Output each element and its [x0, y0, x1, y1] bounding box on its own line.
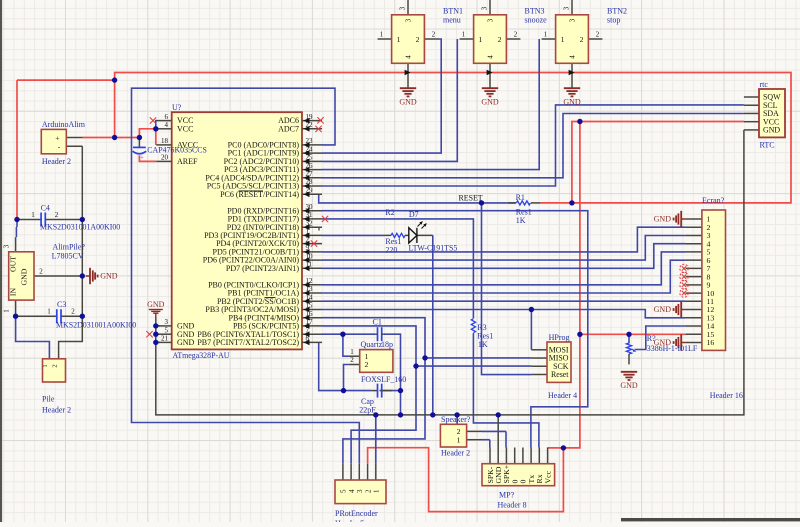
svg-text:1: 1 [380, 31, 384, 39]
svg-text:Ecran?: Ecran? [702, 196, 725, 205]
svg-text:19: 19 [306, 113, 314, 121]
svg-text:-: - [58, 142, 61, 151]
pin 11 PD7 [302, 267, 322, 269]
ground below BTN3 [482, 87, 498, 89]
pin 26 PC3 [302, 169, 322, 171]
svg-text:Header 8: Header 8 [498, 501, 527, 510]
svg-text:GND: GND [620, 381, 638, 390]
resistor R1 1K [516, 201, 530, 205]
wire RTC SCL to PC5 [322, 105, 744, 186]
component Quartz FOXSLF_160 [349, 355, 360, 357]
node XTAL2 quartz tap [341, 388, 346, 393]
GND bus dark [156, 130, 744, 415]
svg-text:1: 1 [462, 31, 466, 39]
svg-text:3: 3 [487, 18, 495, 22]
component BTN2 stop pushbutton [571, 0, 573, 15]
svg-text:17: 17 [306, 318, 314, 326]
node MP Vcc junction [561, 445, 566, 450]
svg-text:18p: 18p [381, 340, 393, 349]
svg-text:8: 8 [306, 335, 310, 343]
wire PB1 to Ecran pin6 [322, 260, 686, 293]
pin 13 PB1 [302, 292, 322, 294]
component AlimPile? L7805CV regulator [15, 237, 17, 252]
wire short stub below bus [456, 415, 458, 424]
svg-text:2: 2 [306, 236, 310, 244]
svg-text:1: 1 [479, 35, 483, 44]
component HProg Header 4 [531, 349, 547, 351]
node GND chain dots [153, 323, 158, 328]
wire red cap to AREF [139, 155, 156, 161]
svg-text:U?: U? [172, 103, 182, 112]
svg-text:20: 20 [161, 154, 169, 162]
svg-text:GND: GND [563, 97, 581, 106]
wire pot wiper to Ecran pin14 [635, 326, 686, 350]
svg-text:9: 9 [306, 244, 310, 252]
svg-text:L7805CV: L7805CV [52, 252, 84, 261]
wire Pile dark branch [59, 316, 83, 359]
svg-text:12: 12 [306, 277, 314, 285]
svg-text:Header 2: Header 2 [42, 157, 71, 166]
wire PB7 XTAL2 net with Cap 22pF [319, 342, 371, 390]
svg-text:1: 1 [457, 436, 461, 445]
ground Ecran pin16 [681, 342, 685, 344]
svg-text:3: 3 [563, 6, 571, 10]
wire VCC top bus red [17, 79, 115, 81]
node ArduinoAlim plus junction [112, 135, 117, 140]
capacitor GAP476K035CCS [138, 138, 140, 148]
svg-text:3: 3 [405, 18, 413, 22]
node pot top junction [626, 332, 631, 337]
wire BTN3 to PC2 [322, 39, 457, 161]
svg-text:21: 21 [161, 335, 169, 343]
svg-text:1: 1 [561, 35, 565, 44]
no-erc cross VCC pin6 [150, 117, 156, 123]
pin 15 PB3 [302, 309, 322, 311]
svg-text:4: 4 [165, 121, 169, 129]
pin 24 PC1 [302, 152, 322, 154]
ground Ecran pin1 [681, 218, 685, 220]
no-erc cross GND pin5 [146, 331, 152, 337]
node gnd bus tap [454, 412, 459, 417]
svg-text:2: 2 [364, 489, 372, 493]
svg-text:GND: GND [399, 97, 417, 106]
svg-text:Vcc: Vcc [543, 470, 552, 483]
wire Pile blue branch [16, 316, 50, 359]
svg-text:1: 1 [544, 31, 548, 39]
svg-text:2: 2 [596, 31, 600, 39]
svg-text:31: 31 [306, 211, 314, 219]
resistor R3 1K [471, 319, 475, 333]
wire PB0 to Ecran pin5 [322, 252, 686, 285]
svg-text:GND: GND [654, 215, 672, 224]
wire SCK net PB5 to HProg and PRotEncoder pin2 [322, 326, 416, 464]
wire C4 to regulator pin3 [16, 220, 18, 228]
svg-text:4: 4 [348, 489, 356, 493]
pin 28 PC5 [302, 185, 322, 187]
pin 18 AVCC [156, 144, 171, 146]
svg-text:GND: GND [177, 338, 195, 347]
svg-text:22: 22 [306, 121, 314, 129]
no-erc circle Ecran pin10 [680, 289, 688, 297]
svg-text:2: 2 [432, 31, 436, 39]
svg-text:GND: GND [20, 268, 29, 285]
pin 1 PD3 [302, 234, 322, 236]
svg-text:+: + [140, 155, 144, 162]
node regulator GND junction [80, 273, 85, 278]
svg-text:24: 24 [306, 145, 314, 153]
svg-text:29: 29 [306, 187, 314, 195]
pin 8 PB7 [302, 341, 322, 343]
svg-text:MP?: MP? [499, 490, 515, 499]
wire RESET vertical to HProg [482, 203, 532, 375]
wire blue pin6-pin4 link [155, 120, 157, 129]
component BTN1 menu pushbutton [407, 0, 409, 15]
no-erc cross PD1 [322, 216, 328, 222]
node gnd bus MP gnd tap [496, 412, 501, 417]
no-erc circle Ecran pin8 [680, 272, 688, 280]
wire BTN2 to PC3 [322, 39, 539, 170]
node C4 pin2 junction [80, 217, 85, 222]
wire C4 pin2 lead [45, 219, 82, 221]
capacitor C4 [40, 213, 42, 227]
potentiometer R? 3386H-1-I01LF [628, 334, 630, 343]
svg-text:32: 32 [306, 219, 314, 227]
node VCC Ecran15 tap [577, 332, 582, 337]
pin 20 AREF [156, 160, 171, 162]
pin 17 PB5 [302, 325, 322, 327]
svg-text:1K: 1K [516, 216, 526, 225]
svg-text:23: 23 [306, 137, 314, 145]
wire regulator pin1 to C3 [15, 300, 17, 316]
wire Speaker pin1 to MP? SPK- [482, 439, 490, 441]
no-erc cross ADC7 [315, 126, 321, 132]
svg-text:220: 220 [385, 246, 397, 255]
wire red VCC to PRotEncoder pin4 [368, 448, 564, 512]
component BTN3 snooze pushbutton [489, 0, 491, 15]
component PRotEncoder Header 5 [342, 464, 344, 480]
svg-text:26: 26 [306, 162, 314, 170]
node SCK HProg tap [413, 363, 418, 368]
svg-text:3: 3 [3, 244, 11, 248]
pin 29 PC6 [302, 193, 322, 195]
svg-text:3: 3 [569, 18, 577, 22]
svg-text:VCC: VCC [177, 124, 193, 133]
no-erc circle Ecran pin7 [680, 264, 688, 272]
pin 31 PD1 [302, 218, 322, 220]
svg-text:5: 5 [340, 489, 348, 493]
svg-text:C3: C3 [57, 300, 66, 309]
pin 3 GND [156, 325, 171, 327]
node MOSI HProg tap [529, 307, 534, 312]
component ArduinoAlim Header 2 [66, 137, 82, 139]
svg-text:16: 16 [306, 310, 314, 318]
svg-text:2: 2 [365, 360, 369, 369]
svg-text:1: 1 [373, 489, 381, 493]
pin 27 PC4 [302, 177, 322, 179]
node gnd bus D7 tap [430, 412, 435, 417]
svg-text:PD7 (PCINT23/AIN1): PD7 (PCINT23/AIN1) [226, 264, 299, 273]
wire PB2 to Ecran pin11 [322, 300, 686, 302]
wire RTC VCC red [572, 122, 744, 203]
svg-text:R?: R? [647, 334, 656, 343]
node MISO HProg tap [422, 355, 427, 360]
wire quartz pin2 branch [344, 365, 349, 391]
svg-text:1: 1 [3, 309, 11, 313]
svg-text:2: 2 [350, 356, 354, 364]
svg-text:Header 16: Header 16 [710, 391, 743, 400]
svg-text:2: 2 [580, 35, 584, 44]
pin 30 PD0 [302, 210, 322, 212]
pin PD2 stub tail [318, 227, 320, 230]
wire C3 leads [16, 315, 57, 317]
svg-text:15: 15 [306, 302, 314, 310]
svg-text:menu: menu [443, 15, 461, 24]
pin 21 GND [156, 341, 171, 343]
pin 5 GND [156, 333, 171, 335]
pin 32 PD2 [302, 226, 322, 228]
node R1 VCC junction [569, 200, 574, 205]
node VCC bus corner [112, 77, 117, 82]
svg-text:PB7 (PCINT7/XTAL2/TOSC2): PB7 (PCINT7/XTAL2/TOSC2) [197, 338, 299, 347]
svg-text:1: 1 [31, 211, 35, 219]
svg-text:BTN1: BTN1 [443, 7, 463, 16]
svg-text:1: 1 [397, 35, 401, 44]
component Ecran? Header 16 [686, 218, 702, 220]
pin 4 VCC [156, 128, 171, 130]
svg-text:Header 2: Header 2 [42, 406, 71, 415]
svg-text:16: 16 [707, 338, 715, 347]
svg-text:AlimPile?: AlimPile? [53, 242, 86, 251]
svg-text:GND: GND [654, 305, 672, 314]
svg-text:RTC: RTC [760, 141, 775, 150]
svg-text:BTN3: BTN3 [525, 7, 545, 16]
node gnd bus cap tap [398, 412, 403, 417]
wire PRot pin5 gnd riser [375, 415, 377, 464]
svg-text:27: 27 [306, 170, 314, 178]
ground below BTN2 [564, 87, 580, 89]
node C3 pin2 junction [80, 314, 85, 319]
svg-text:Header 4: Header 4 [548, 391, 577, 400]
node C3 pin1 junction [13, 314, 18, 319]
svg-text:stop: stop [607, 15, 620, 24]
wire gnd stub pins 3/5/21 [156, 325, 160, 327]
node XTAL1 quartz tap [340, 332, 345, 337]
svg-text:RESET: RESET [459, 194, 483, 203]
no-erc circle Ecran pin9 [680, 281, 688, 289]
wire PC0 net to PRotEncoder pin3 [132, 88, 360, 464]
svg-text:ATmega328P-AU: ATmega328P-AU [173, 351, 230, 360]
svg-text:1: 1 [42, 364, 49, 367]
pin 16 PB4 [302, 317, 322, 319]
node cap gnd drop junction [398, 388, 403, 393]
svg-text:GND: GND [481, 97, 499, 106]
svg-text:1K: 1K [478, 340, 488, 349]
svg-text:ADC7: ADC7 [278, 124, 299, 133]
ground Ecran pin12 [681, 309, 685, 311]
svg-text:GND: GND [100, 272, 118, 281]
pin 7 PB6 [302, 333, 322, 335]
svg-text:18: 18 [161, 137, 169, 145]
svg-text:2: 2 [514, 31, 518, 39]
svg-text:IN: IN [9, 288, 18, 297]
svg-text:5: 5 [165, 326, 169, 334]
svg-text:R2: R2 [385, 208, 394, 217]
pin 14 PB2 [302, 300, 322, 302]
svg-text:1: 1 [350, 348, 354, 356]
svg-text:MKS2D031001A00KI00: MKS2D031001A00KI00 [40, 222, 120, 231]
no-erc cross PD4 [311, 240, 317, 246]
svg-text:30: 30 [306, 203, 314, 211]
wire BTN1 to PC1 [322, 39, 441, 153]
wire D7 cathode to gnd bus [432, 235, 434, 415]
no-erc cross ADC6 [317, 117, 323, 123]
resistor R1 leads [531, 202, 541, 204]
svg-text:HProg: HProg [549, 333, 570, 342]
svg-text:rtc: rtc [760, 80, 769, 89]
overline RESET pin name [239, 190, 264, 192]
svg-text:3: 3 [165, 318, 169, 326]
svg-text:FOXSLF_160: FOXSLF_160 [361, 375, 406, 384]
svg-text:R1: R1 [516, 193, 525, 202]
svg-text:1: 1 [47, 308, 51, 316]
svg-text:2: 2 [498, 35, 502, 44]
capacitor Cap 22pF [371, 390, 377, 392]
node gnd bus PRot pin5 tap [373, 412, 378, 417]
svg-text:GND: GND [147, 300, 165, 309]
svg-text:10: 10 [306, 252, 314, 260]
svg-text:2: 2 [52, 364, 59, 367]
wire PD5 to Ecran pin2 [322, 227, 686, 252]
wire regulator gnd [34, 275, 82, 277]
svg-text:3: 3 [356, 489, 364, 493]
svg-text:3386H-1-I01LF: 3386H-1-I01LF [647, 344, 698, 353]
node decoupling cap tap [137, 135, 142, 140]
pin 2 PD4 [302, 243, 322, 245]
svg-text:Header 2: Header 2 [441, 449, 470, 458]
pin 9 PD5 [302, 251, 322, 253]
svg-text:4: 4 [405, 55, 413, 59]
svg-text:2: 2 [39, 268, 43, 276]
op IC U? ATmega328P-AU body [172, 112, 302, 349]
svg-text:2: 2 [416, 35, 420, 44]
svg-text:LTW-C191TS5: LTW-C191TS5 [409, 244, 458, 253]
wire PB6 XTAL1 net with C1 [322, 333, 375, 335]
sheet bottom border [621, 518, 800, 521]
pin 19 ADC6 [302, 120, 322, 122]
wire cap gnd drop [400, 391, 402, 415]
wire red ArduinoAlim+ to VCC vertical [114, 80, 116, 137]
sheet left border [0, 0, 2, 522]
wire MP? GND pin riser [497, 415, 499, 448]
wire red left drop to C4 [16, 80, 18, 219]
svg-text:snooze: snooze [525, 15, 548, 24]
svg-text:4: 4 [487, 55, 495, 59]
wire Speaker pin2 to MP? SPK+ [482, 430, 506, 432]
component Speaker? Header 2 [467, 430, 482, 432]
svg-text:1: 1 [306, 228, 310, 236]
svg-text:D7: D7 [409, 210, 419, 219]
led D7 LTW-C191TS5 [409, 228, 417, 243]
node RTC VCC tap [577, 119, 582, 124]
svg-text:14: 14 [306, 293, 314, 301]
ground regulator pin2 [86, 275, 90, 277]
svg-text:3: 3 [399, 6, 407, 10]
svg-text:PRotEncoder: PRotEncoder [335, 509, 378, 518]
wire PD1 to R3 to MP? Rx [322, 219, 473, 319]
svg-text:7: 7 [306, 326, 310, 334]
svg-text:ArduinoAlim: ArduinoAlim [42, 120, 86, 129]
svg-text:2: 2 [55, 211, 59, 219]
svg-text:3: 3 [481, 6, 489, 10]
svg-text:OUT: OUT [9, 256, 18, 272]
svg-text:4: 4 [569, 55, 577, 59]
capacitor C3 [56, 309, 58, 323]
resistor R2 220 [385, 234, 392, 236]
svg-text:BTN2: BTN2 [607, 7, 627, 16]
wire MISO net PB4 to HProg and PRotEncoder pin1 [322, 318, 425, 464]
pin 12 PB0 [302, 284, 322, 286]
wire RESET net [319, 194, 516, 203]
svg-text:AVCC: AVCC [177, 141, 198, 150]
pin 25 PC2 [302, 160, 322, 162]
wire PD7 to Ecran pin4 [322, 244, 686, 269]
svg-text:GND: GND [763, 126, 780, 135]
overline SS pin name PB2 [265, 297, 276, 299]
svg-text:Pile: Pile [42, 395, 55, 404]
svg-text:Quartz: Quartz [361, 340, 383, 349]
svg-text:6: 6 [165, 113, 169, 121]
svg-text:25: 25 [306, 154, 314, 162]
ground pot [621, 371, 637, 373]
capacitor C1 18p [375, 333, 377, 335]
component Pile Header 2 [43, 359, 66, 382]
pin 23 PC0 [302, 144, 322, 146]
wire red to pot and Ecran pin15 [580, 333, 686, 335]
svg-text:13: 13 [306, 285, 314, 293]
wire MOSI net PB3 to HProg and Ecran pin13 [322, 310, 686, 318]
svg-text:2: 2 [71, 308, 75, 316]
wire RTC SDA to PC4 [322, 114, 744, 178]
ground below BTN1 [400, 87, 416, 89]
wire PD0 to MP? Tx [322, 211, 588, 448]
node C4 pin1 junction [14, 217, 19, 222]
wire PD6 to Ecran pin3 [322, 236, 686, 261]
pin 10 PD6 [302, 259, 322, 261]
pin 22 ADC7 [302, 128, 322, 130]
svg-text:Reset: Reset [551, 370, 569, 379]
wire quartz pin1 branch [343, 334, 349, 356]
wire red VCC trunk to MP? [548, 122, 580, 448]
node VCC pins junction [153, 126, 158, 131]
svg-text:C4: C4 [41, 204, 50, 213]
component rtc RTC header [744, 96, 759, 98]
svg-text:C1: C1 [373, 317, 382, 326]
wire red to VCC pins [139, 129, 155, 138]
node RESET junction [479, 200, 484, 205]
component MP? Header 8 [489, 448, 491, 464]
wire C4 pin1 lead [17, 219, 41, 221]
svg-text:MKS2D031001A00KI00: MKS2D031001A00KI00 [56, 321, 136, 330]
svg-text:28: 28 [306, 178, 314, 186]
wire PD3 to R2/LED [322, 234, 385, 236]
svg-text:11: 11 [306, 261, 313, 269]
svg-text:AREF: AREF [177, 157, 198, 166]
wire ArduinoAlim minus drop [81, 146, 83, 219]
pin 6 VCC [156, 120, 171, 122]
